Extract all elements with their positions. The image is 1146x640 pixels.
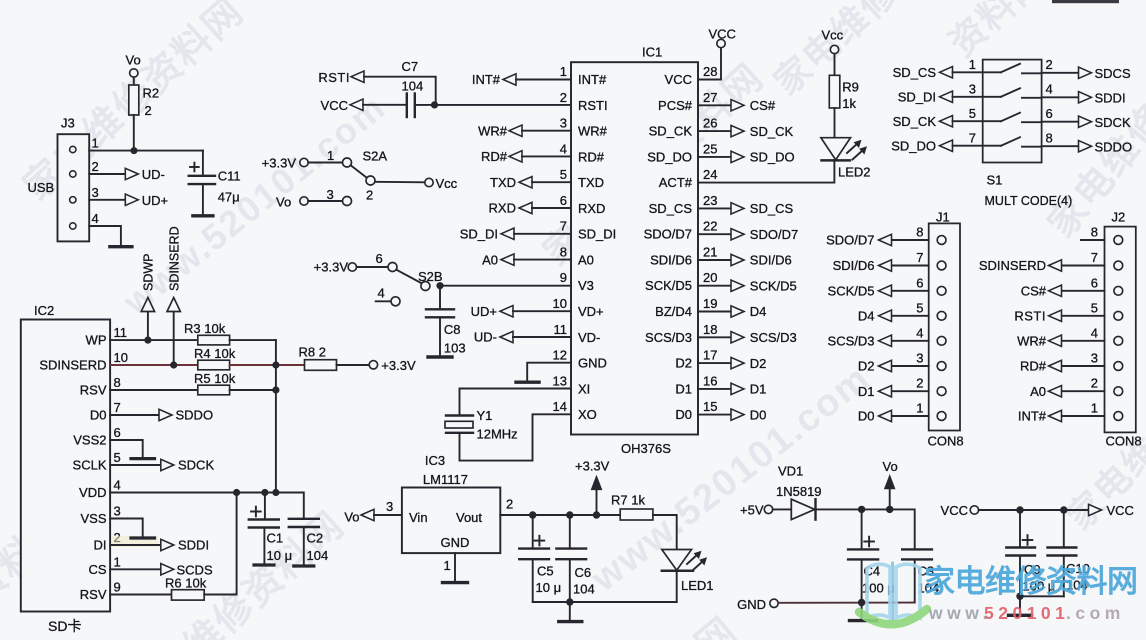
op-amp U1 / IC1 OH376S body xyxy=(571,45,698,457)
svg-text:C5: C5 xyxy=(537,564,554,579)
svg-text:2: 2 xyxy=(1091,376,1098,391)
wire VCC arrow to C7 xyxy=(363,104,407,106)
switch S1 MULT CODE(4) xyxy=(983,60,1073,208)
svg-text:R5 10k: R5 10k xyxy=(194,371,236,386)
svg-text:D2: D2 xyxy=(858,359,875,374)
LED LED2 xyxy=(821,138,871,180)
svg-text:D0: D0 xyxy=(858,409,875,424)
svg-text:2: 2 xyxy=(916,376,923,391)
svg-text:13: 13 xyxy=(553,373,567,388)
svg-text:SCK/D5: SCK/D5 xyxy=(828,284,875,299)
svg-text:2: 2 xyxy=(145,103,152,118)
junction SDWP node xyxy=(144,337,151,344)
svg-text:9: 9 xyxy=(560,270,567,285)
svg-text:SD_DI: SD_DI xyxy=(578,227,616,242)
wire RXD xyxy=(532,207,571,209)
wire DI row xyxy=(110,544,160,546)
svg-text:14: 14 xyxy=(553,399,567,414)
svg-text:J1: J1 xyxy=(936,210,950,225)
svg-text:10 μ: 10 μ xyxy=(536,580,562,595)
node SDDI arrow xyxy=(161,539,174,550)
svg-text:SDCK: SDCK xyxy=(1095,115,1131,130)
wire SDI/D6 xyxy=(698,259,731,261)
svg-text:D0: D0 xyxy=(675,407,692,422)
svg-text:9: 9 xyxy=(114,580,121,595)
svg-text:1: 1 xyxy=(444,558,451,573)
junction Vout/C6 xyxy=(566,511,573,518)
junction rail/R5 xyxy=(272,386,279,393)
wire R3 to rail xyxy=(230,339,276,341)
svg-text:LED2: LED2 xyxy=(838,165,871,180)
wire WR# xyxy=(522,130,571,132)
svg-text:RSTI: RSTI xyxy=(318,70,350,85)
transistor IC2 SD card socket body xyxy=(21,303,110,634)
svg-text:SDCK: SDCK xyxy=(178,458,214,473)
svg-text:VD+: VD+ xyxy=(578,304,604,319)
node +3.3V up arrow xyxy=(575,459,610,516)
svg-text:1k: 1k xyxy=(842,96,856,111)
wire S1 row4 right xyxy=(1042,145,1079,147)
junction C9 bottom xyxy=(1016,593,1023,600)
wire J2 pin5 + node RSTI arrow xyxy=(1062,315,1105,317)
wire J2 pin1 + node INT# arrow xyxy=(1062,415,1105,417)
svg-text:SDI/D6: SDI/D6 xyxy=(833,258,875,273)
junction Vout/+3.3V xyxy=(593,511,600,518)
junction RSTI node xyxy=(431,101,438,108)
wire VCC rail xyxy=(979,509,1089,511)
svg-text:SCS/D3: SCS/D3 xyxy=(645,330,692,345)
wire J3 pin4 to ground xyxy=(89,226,121,246)
svg-text:VSS: VSS xyxy=(80,511,106,526)
svg-text:SDI/D6: SDI/D6 xyxy=(650,253,692,268)
wire S1 row2 left xyxy=(953,96,1002,98)
svg-text:R7 1k: R7 1k xyxy=(611,493,645,508)
node Vo terminal (top of R2) xyxy=(130,69,138,77)
wire Vo to IC3 Vin xyxy=(374,514,402,516)
svg-text:VCC: VCC xyxy=(1107,503,1134,518)
node SDWP riser arrow xyxy=(141,254,155,341)
wire J2 pin7 + node SDINSERD arrow xyxy=(1062,265,1105,267)
svg-text:RSV: RSV xyxy=(80,383,107,398)
wire S1 row3 right xyxy=(1042,121,1079,123)
wire VDD row xyxy=(110,493,304,519)
ground (C9) xyxy=(1019,596,1021,614)
ground (VSS2) xyxy=(131,457,155,460)
svg-text:SD_DI: SD_DI xyxy=(460,227,498,242)
svg-text:6: 6 xyxy=(1091,275,1098,290)
svg-text:7: 7 xyxy=(969,130,976,145)
wire bottom rail (C5/C6/LED1) xyxy=(533,601,677,603)
svg-text:104: 104 xyxy=(573,582,595,597)
svg-text:R2: R2 xyxy=(143,86,160,101)
svg-text:4: 4 xyxy=(378,286,385,301)
IC1 left pin numbers xyxy=(553,64,567,414)
wire VD1 to C3 xyxy=(816,509,915,549)
node SCS/D3 arrow xyxy=(731,332,744,343)
svg-text:USB: USB xyxy=(28,180,55,195)
resistor R3 10k xyxy=(184,321,230,345)
svg-text:D1: D1 xyxy=(675,381,692,396)
node SDCS arrow xyxy=(1079,67,1092,78)
wire D0 xyxy=(698,414,731,416)
svg-text:D1: D1 xyxy=(750,382,767,397)
svg-text:XI: XI xyxy=(578,381,590,396)
junction rail/R4 xyxy=(272,361,279,368)
svg-text:WP: WP xyxy=(86,333,107,348)
wire SDINSERD row xyxy=(110,364,198,366)
svg-text:PCS#: PCS# xyxy=(658,98,693,113)
svg-text:3: 3 xyxy=(969,82,976,97)
svg-text:RD#: RD# xyxy=(481,149,508,164)
svg-text:SCK/D5: SCK/D5 xyxy=(750,278,797,293)
junction VCC/C10 xyxy=(1060,506,1067,513)
svg-text:12: 12 xyxy=(553,348,567,363)
node SDDI arrow xyxy=(1079,92,1092,103)
svg-text:104: 104 xyxy=(307,548,329,563)
svg-text:Vout: Vout xyxy=(456,510,482,525)
svg-text:WR#: WR# xyxy=(478,123,508,138)
wire IC3 GND pin1 xyxy=(454,553,456,582)
svg-text:GND: GND xyxy=(737,597,766,612)
wire J1 pin4 + node SCS/D3 arrow xyxy=(892,340,929,342)
svg-text:D0: D0 xyxy=(750,407,767,422)
svg-text:2: 2 xyxy=(506,497,513,512)
wire SDO/D7 xyxy=(698,233,731,235)
wire SD_DO xyxy=(698,156,731,158)
svg-text:SD_DO: SD_DO xyxy=(750,150,795,165)
wire S1 row2 right xyxy=(1042,96,1079,98)
S1 switch blade row3 xyxy=(1001,113,1020,122)
IC1 right pin labels xyxy=(644,72,693,422)
resistor R9 1k xyxy=(829,54,859,111)
capacitor C8 103 xyxy=(426,286,466,356)
node SDINSERD riser arrow xyxy=(167,226,181,365)
svg-text:3: 3 xyxy=(114,504,121,519)
svg-text:家电维修资料网: 家电维修资料网 xyxy=(924,564,1138,599)
junction Vout/C5 xyxy=(529,511,536,518)
svg-text:SDDI: SDDI xyxy=(178,538,209,553)
svg-text:D2: D2 xyxy=(675,356,692,371)
wire J3 pin3 xyxy=(89,199,125,201)
wire SCK/D5 xyxy=(698,285,731,287)
capacitor C10 104 xyxy=(1048,510,1090,596)
svg-text:SDINSERD: SDINSERD xyxy=(39,358,106,373)
svg-text:+3.3V: +3.3V xyxy=(314,260,349,275)
wire S1 row3 left xyxy=(953,120,1002,122)
svg-text:CON8: CON8 xyxy=(1106,434,1142,449)
wire INT# xyxy=(516,79,571,81)
wire J1 pin6 + node SCK/D5 arrow xyxy=(892,290,929,292)
wire D0 row xyxy=(110,414,159,416)
svg-text:SCK/D5: SCK/D5 xyxy=(645,278,692,293)
svg-text:SD_DO: SD_DO xyxy=(647,149,692,164)
svg-text:SCLK: SCLK xyxy=(73,458,107,473)
crystal Y1 12MHz xyxy=(445,408,518,442)
svg-text:10: 10 xyxy=(553,296,567,311)
IC1 right pin numbers xyxy=(703,64,717,414)
svg-text:SDINSERD: SDINSERD xyxy=(167,226,181,291)
wire VCC pin28 xyxy=(698,48,721,80)
node SD_CS arrow xyxy=(731,203,744,214)
svg-text:4: 4 xyxy=(1046,82,1053,97)
wire SCS/D3 xyxy=(698,336,731,338)
svg-text:Y1: Y1 xyxy=(477,408,493,423)
resistor R5 10k xyxy=(194,371,236,395)
svg-text:SDINSERD: SDINSERD xyxy=(979,258,1046,273)
node D0 arrow xyxy=(731,409,744,420)
wire S2A common to Vcc xyxy=(375,181,425,184)
svg-text:SD_CS: SD_CS xyxy=(649,201,693,216)
svg-text:1N5819: 1N5819 xyxy=(776,484,822,499)
wire J1 pin3 + node D2 arrow xyxy=(892,365,929,367)
svg-text:VCC: VCC xyxy=(941,503,968,518)
svg-text:Vin: Vin xyxy=(409,510,428,525)
wire GND to C4/C3 xyxy=(778,602,915,604)
wire BZ/D4 xyxy=(698,311,731,313)
svg-text:7: 7 xyxy=(1091,250,1098,265)
svg-text:18: 18 xyxy=(703,322,717,337)
svg-text:DI: DI xyxy=(94,538,107,553)
node UD+ arrow xyxy=(125,194,138,205)
svg-text:SDDO: SDDO xyxy=(176,408,214,423)
svg-text:2: 2 xyxy=(560,90,567,105)
svg-text:3: 3 xyxy=(916,351,923,366)
node SDCK arrow xyxy=(1079,116,1092,127)
junction VDD/R6 xyxy=(233,489,240,496)
svg-text:Vo: Vo xyxy=(276,195,291,210)
svg-text:R3 10k: R3 10k xyxy=(184,321,226,336)
svg-text:TXD: TXD xyxy=(578,175,604,190)
svg-text:1: 1 xyxy=(1091,401,1098,416)
S1 switch blade row4 xyxy=(1001,137,1020,146)
svg-text:SDO/D7: SDO/D7 xyxy=(644,227,692,242)
svg-text:1: 1 xyxy=(92,136,99,151)
junction VD1/Vo xyxy=(886,506,893,513)
svg-text:R6 10k: R6 10k xyxy=(165,576,207,591)
svg-text:C8: C8 xyxy=(444,322,461,337)
svg-text:S2A: S2A xyxy=(363,149,388,164)
svg-text:Vo: Vo xyxy=(344,510,359,525)
svg-text:IC1: IC1 xyxy=(642,45,662,60)
svg-text:C7: C7 xyxy=(402,59,419,74)
svg-text:R8 2: R8 2 xyxy=(299,345,326,360)
svg-text:5: 5 xyxy=(1091,300,1098,315)
wire C9/C10 bottom xyxy=(1020,595,1064,597)
svg-text:+5V: +5V xyxy=(740,503,764,518)
ground (C11) xyxy=(193,214,213,217)
svg-text:3: 3 xyxy=(386,499,393,514)
svg-text:8: 8 xyxy=(1046,130,1053,145)
svg-text:C6: C6 xyxy=(575,565,592,580)
capacitor C7 104 xyxy=(402,59,424,117)
svg-text:3: 3 xyxy=(560,116,567,131)
svg-text:SDDO: SDDO xyxy=(1095,139,1133,154)
wire ACT# to LED2 xyxy=(698,160,834,182)
svg-text:4: 4 xyxy=(916,325,923,340)
node Vo up arrow (VD1) xyxy=(883,459,898,509)
svg-text:Vo: Vo xyxy=(883,459,898,474)
IC2 pin labels xyxy=(39,333,107,602)
svg-text:6: 6 xyxy=(376,251,383,266)
J2 pin numbers xyxy=(1091,225,1098,416)
wire C7 to IC1 pin2 RSTI xyxy=(415,104,571,106)
svg-text:6: 6 xyxy=(560,193,567,208)
svg-text:SD_CK: SD_CK xyxy=(649,124,693,139)
node SCDS arrow xyxy=(161,564,174,575)
svg-text:47μ: 47μ xyxy=(218,190,240,205)
wire V3 to S2B xyxy=(440,285,571,287)
resistor R7 1k xyxy=(611,493,653,521)
capacitor C1 10u xyxy=(249,493,292,565)
svg-text:CS: CS xyxy=(88,562,106,577)
svg-text:21: 21 xyxy=(703,245,717,260)
connector J1 CON8 xyxy=(928,210,964,449)
ground (VSS) xyxy=(131,536,155,539)
svg-text:BZ/D4: BZ/D4 xyxy=(655,304,692,319)
svg-text:4: 4 xyxy=(92,211,99,226)
svg-text:1: 1 xyxy=(114,554,121,569)
svg-text:1: 1 xyxy=(969,57,976,72)
svg-text:V3: V3 xyxy=(578,278,594,293)
svg-text:XO: XO xyxy=(578,407,597,422)
svg-text:www.: www. xyxy=(928,603,992,623)
svg-text:SD_DI: SD_DI xyxy=(898,90,936,105)
svg-text:UD-: UD- xyxy=(142,167,165,182)
ground (LED1 rail) xyxy=(569,602,571,621)
svg-text:3: 3 xyxy=(1091,351,1098,366)
svg-text:SD_CS: SD_CS xyxy=(893,65,937,80)
ground (C2) xyxy=(294,564,314,567)
wire LED1 down to rail xyxy=(676,571,678,602)
wire WP row xyxy=(110,339,198,341)
svg-text:A0: A0 xyxy=(1030,384,1046,399)
node D2 arrow xyxy=(731,357,744,368)
wire SD_CS xyxy=(698,207,731,209)
node SDDO arrow xyxy=(159,409,172,420)
svg-text:Vo: Vo xyxy=(126,53,141,68)
svg-text:SD卡: SD卡 xyxy=(48,618,81,634)
capacitor C4 100u xyxy=(848,509,895,602)
wire J1 pin8 + node SDO/D7 arrow xyxy=(892,239,929,241)
wire R5 to rail xyxy=(230,389,276,391)
wire J3 pin1 to R2/C11 node xyxy=(89,150,203,152)
wire J1 pin5 + node D4 arrow xyxy=(892,315,929,317)
svg-text:MULT CODE(4): MULT CODE(4) xyxy=(985,194,1073,208)
capacitor C6 104 xyxy=(556,515,594,602)
wire TXD xyxy=(532,181,571,183)
svg-text:+3.3V: +3.3V xyxy=(381,358,416,373)
capacitor C2 104 xyxy=(289,519,328,566)
svg-text:VCC: VCC xyxy=(665,72,692,87)
wire A0 xyxy=(514,259,571,261)
svg-text:8: 8 xyxy=(916,225,923,240)
svg-text:SDCS: SDCS xyxy=(1095,66,1131,81)
svg-text:23: 23 xyxy=(703,193,717,208)
wire R4 to R8 xyxy=(230,364,305,366)
wire IC3 Vout row xyxy=(500,514,620,516)
svg-text:IC2: IC2 xyxy=(34,303,54,318)
wire SD_DI xyxy=(514,233,571,235)
junction VDD/C1 xyxy=(261,489,268,496)
svg-text:10 μ: 10 μ xyxy=(267,548,293,563)
svg-text:6: 6 xyxy=(916,275,923,290)
node Vcc terminal (S2A) xyxy=(425,178,433,186)
IC2 pin numbers xyxy=(114,325,128,595)
svg-text:SCS/D3: SCS/D3 xyxy=(750,330,797,345)
wire D2 xyxy=(698,362,731,364)
connector J2 CON8 xyxy=(1105,210,1142,449)
ground (C4) xyxy=(861,603,863,620)
svg-text:24: 24 xyxy=(703,167,717,182)
svg-text:7: 7 xyxy=(560,219,567,234)
junction J3 pin1 node xyxy=(131,147,138,154)
svg-text:CS#: CS# xyxy=(1021,284,1047,299)
junction VCC/C9 xyxy=(1016,506,1023,513)
svg-text:TXD: TXD xyxy=(490,175,516,190)
svg-text:6: 6 xyxy=(114,425,121,440)
svg-text:RXD: RXD xyxy=(489,201,516,216)
svg-text:J3: J3 xyxy=(61,116,75,131)
svg-text:INT#: INT# xyxy=(1018,409,1047,424)
wire S1 row1 right xyxy=(1042,72,1079,74)
svg-text:15: 15 xyxy=(703,399,717,414)
svg-text:WR#: WR# xyxy=(578,124,608,139)
wire VD+ xyxy=(513,310,571,312)
capacitor C3 104 xyxy=(902,549,939,602)
svg-text:4: 4 xyxy=(560,141,567,156)
ground (IC3) xyxy=(443,581,468,584)
svg-text:GND: GND xyxy=(441,535,470,550)
switch S2A xyxy=(262,148,388,210)
svg-text:4: 4 xyxy=(1091,325,1098,340)
svg-text:D4: D4 xyxy=(750,304,767,319)
ground (C1) xyxy=(254,563,274,566)
node SDCK arrow xyxy=(161,459,174,470)
J1 pin numbers xyxy=(916,225,923,416)
svg-text:R4 10k: R4 10k xyxy=(194,346,236,361)
wire +5V to VD1 xyxy=(773,508,792,510)
svg-text:22: 22 xyxy=(703,219,717,234)
svg-text:J2: J2 xyxy=(1112,210,1126,225)
svg-text:C11: C11 xyxy=(218,169,241,184)
svg-text:25: 25 xyxy=(703,141,717,156)
resistor R4 10k xyxy=(194,346,236,370)
node UD- arrow xyxy=(125,168,138,179)
svg-text:17: 17 xyxy=(703,348,717,363)
node VCC terminal (pin28) xyxy=(717,39,725,47)
ground (J3 pin4) xyxy=(110,245,132,248)
wire D1 xyxy=(698,388,731,390)
svg-text:1: 1 xyxy=(327,148,334,163)
svg-text:5: 5 xyxy=(969,106,976,121)
svg-text:D4: D4 xyxy=(858,309,875,324)
svg-text:SCS/D3: SCS/D3 xyxy=(828,334,875,349)
junction VD1/C4 xyxy=(858,506,865,513)
svg-text:RSTI: RSTI xyxy=(1014,309,1046,324)
svg-text:GND: GND xyxy=(578,356,607,371)
pale yellow scan tint near DI pin xyxy=(112,536,158,547)
wire VSS stub xyxy=(110,519,143,538)
svg-text:6: 6 xyxy=(1046,106,1053,121)
svg-text:2: 2 xyxy=(92,159,99,174)
op-amp U3 / IC3 LM1117 body xyxy=(402,453,500,553)
svg-text:5: 5 xyxy=(114,450,121,465)
svg-text:RD#: RD# xyxy=(578,149,605,164)
svg-text:SDO/D7: SDO/D7 xyxy=(826,233,874,248)
svg-text:RSV: RSV xyxy=(80,587,107,602)
svg-text:C1: C1 xyxy=(267,531,284,546)
svg-text:27: 27 xyxy=(703,90,717,105)
